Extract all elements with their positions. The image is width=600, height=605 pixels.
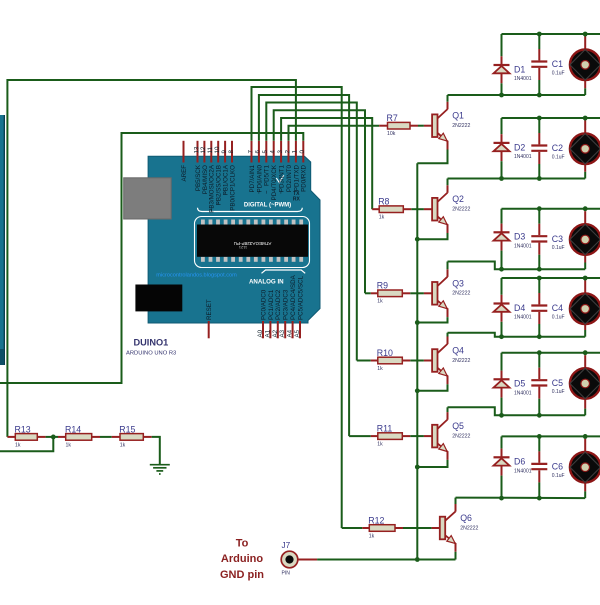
svg-text:PC2/ADC2: PC2/ADC2 <box>275 289 282 320</box>
svg-text:PB0/ICP1/CLKO: PB0/ICP1/CLKO <box>229 165 236 211</box>
wire Q6 collector to stage 6 <box>456 498 586 512</box>
junction nodes stage 4 <box>499 276 587 340</box>
svg-text:PD6/AIN0: PD6/AIN0 <box>256 164 263 192</box>
svg-text:AREF: AREF <box>181 165 188 182</box>
junction emitter node Q5 <box>415 465 420 470</box>
pin 11 <box>207 141 216 213</box>
svg-text:R9: R9 <box>377 281 388 291</box>
wire emitter rail <box>416 163 418 559</box>
svg-text:~: ~ <box>223 191 229 195</box>
motor M5 <box>570 368 600 399</box>
svg-text:Q6: Q6 <box>460 513 472 523</box>
svg-text:R8: R8 <box>378 197 389 207</box>
svg-text:Arduino: Arduino <box>221 553 263 565</box>
wire stage 4 top rail <box>502 277 600 279</box>
resistor R14 <box>65 424 92 448</box>
resistor R7 <box>387 113 411 137</box>
wire pin 5 to R10 <box>266 103 357 361</box>
wire capacitor C3 leads <box>538 209 540 270</box>
pin A4 <box>287 274 297 338</box>
wire Q2 collector to stage 2 <box>448 179 586 193</box>
svg-text:5: 5 <box>262 150 269 154</box>
svg-text:1N4001: 1N4001 <box>514 391 532 397</box>
svg-text:~: ~ <box>216 201 222 205</box>
svg-text:C3: C3 <box>552 234 563 244</box>
wire pin 3 to R8 <box>281 118 372 209</box>
pin 1 <box>292 141 301 191</box>
wire motor 5 leads <box>584 353 586 416</box>
wire Q2 emitter <box>415 224 448 241</box>
svg-text:0.1uF: 0.1uF <box>552 314 565 320</box>
board silkscreen texts <box>156 175 305 285</box>
svg-text:1k: 1k <box>377 442 383 448</box>
svg-text:1k: 1k <box>66 442 72 448</box>
junction nodes stage 2 <box>499 116 587 181</box>
motor M3 <box>570 224 600 255</box>
svg-text:1k: 1k <box>379 215 385 221</box>
pin 13 <box>193 141 202 191</box>
wire stage 6 top rail <box>502 435 600 437</box>
svg-text:C2: C2 <box>552 143 563 153</box>
wire pin 2 to R7 <box>289 126 380 141</box>
svg-text:1k: 1k <box>377 299 383 305</box>
wire capacitor C2 leads <box>538 118 540 179</box>
junction R13/R14 node <box>51 435 56 440</box>
wire motor 1 leads <box>584 34 586 95</box>
svg-text:DUINO1: DUINO1 <box>134 338 169 348</box>
svg-text:1121: 1121 <box>239 245 247 249</box>
svg-text:D4: D4 <box>514 303 525 313</box>
wire diode D2 leads <box>501 118 503 179</box>
board labels DUINO1 / ARDUINO UNO R3 <box>126 338 176 357</box>
pin 2 <box>284 141 293 192</box>
svg-text:To: To <box>236 538 249 550</box>
wire Q1 collector to stage 1 <box>448 95 586 109</box>
IC pins <box>201 220 303 262</box>
svg-text:7: 7 <box>247 150 254 154</box>
capacitor C5 0.1uF <box>531 378 564 395</box>
motor M4 <box>570 294 600 325</box>
wire capacitor C4 leads <box>538 278 540 337</box>
svg-text:2N2222: 2N2222 <box>452 434 470 440</box>
resistor R11 <box>377 424 403 448</box>
junction nodes stage 6 <box>499 434 587 501</box>
svg-text:8: 8 <box>228 150 235 154</box>
pin 7 <box>247 141 256 193</box>
svg-text:R7: R7 <box>387 113 398 123</box>
Arduino Uno board DUINO1 <box>148 156 320 323</box>
svg-text:C6: C6 <box>552 462 563 472</box>
wire J7 to Q6 emitter <box>298 559 456 561</box>
svg-text:Q4: Q4 <box>452 346 464 356</box>
wire R14-R15 <box>92 436 120 438</box>
diode D4 1N4001 <box>494 303 532 321</box>
pin A2 <box>272 289 282 338</box>
svg-text:R11: R11 <box>377 424 393 434</box>
wire motor 6 leads <box>584 436 586 498</box>
svg-text:Q2: Q2 <box>452 194 464 204</box>
wire diode D1 leads <box>501 34 503 95</box>
junction emitter node Q4 <box>415 388 420 393</box>
svg-text:1N4001: 1N4001 <box>514 244 532 250</box>
diode D3 1N4001 <box>494 232 532 250</box>
transistor Q4 2N2222 <box>432 344 470 376</box>
wire Q5 collector to stage 5 <box>448 407 586 419</box>
wire Q1 emitter <box>417 141 447 164</box>
capacitor C2 0.1uF <box>531 143 564 160</box>
svg-text:PD5/T1: PD5/T1 <box>264 164 271 186</box>
wire R13-R14 <box>37 436 65 438</box>
svg-text:A5: A5 <box>294 329 301 337</box>
IC socket outline <box>195 217 310 268</box>
wire capacitor C1 leads <box>538 34 540 95</box>
pin 10 <box>214 141 223 205</box>
svg-text:A0: A0 <box>257 329 264 337</box>
svg-text:0.1uF: 0.1uF <box>552 154 565 160</box>
svg-text:0.1uF: 0.1uF <box>552 473 565 479</box>
svg-text:4: 4 <box>270 150 277 154</box>
svg-text:RESET: RESET <box>206 299 213 320</box>
svg-text:Q5: Q5 <box>452 421 464 431</box>
junction rail/J7 node <box>415 557 420 562</box>
diode D2 1N4001 <box>494 142 532 160</box>
svg-text:R14: R14 <box>65 424 81 434</box>
svg-text:1k: 1k <box>369 533 375 539</box>
svg-text:PIN: PIN <box>282 571 291 577</box>
pin AREF <box>181 141 188 182</box>
junction emitter node Q3 <box>415 320 420 325</box>
motor M6 <box>570 452 600 483</box>
resistor R13 <box>15 424 38 448</box>
svg-text:1N4001: 1N4001 <box>514 469 532 475</box>
junction emitter node Q2 <box>415 237 420 242</box>
resistor R10 <box>377 348 403 372</box>
svg-text:~: ~ <box>209 208 215 212</box>
power jack <box>135 285 182 312</box>
wire R12 leads <box>342 527 440 529</box>
wire R13 left lead <box>7 436 15 438</box>
junction nodes stage 5 <box>499 350 587 417</box>
resistor R9 <box>377 281 403 305</box>
svg-text:2N2222: 2N2222 <box>452 207 470 213</box>
connector J7 PIN <box>281 541 298 577</box>
svg-text:10k: 10k <box>387 131 396 137</box>
svg-text:R15: R15 <box>119 424 135 434</box>
wire pin 4 to R9 <box>274 110 365 293</box>
pin 0 <box>299 141 308 192</box>
resistor R15 <box>119 424 143 448</box>
svg-text:Q1: Q1 <box>452 111 464 121</box>
svg-text:RX: RX <box>293 197 301 203</box>
svg-text:PD0/RXD: PD0/RXD <box>301 164 308 191</box>
svg-text:GND pin: GND pin <box>220 569 264 581</box>
wire R9 leads <box>365 292 432 294</box>
transistor Q5 2N2222 <box>432 420 470 452</box>
wire tap to left edge <box>0 437 53 451</box>
svg-text:~: ~ <box>264 190 270 194</box>
svg-text:PD2/INT0: PD2/INT0 <box>286 164 293 192</box>
pin 4 <box>270 141 279 201</box>
svg-text:2N2222: 2N2222 <box>460 525 478 531</box>
pin 9 <box>221 141 230 195</box>
wire pin 6 to R11 <box>259 95 349 436</box>
wire capacitor C5 leads <box>538 353 540 416</box>
wire stage 1 top rail <box>502 33 600 35</box>
wire R10 leads <box>357 360 432 362</box>
USB connector <box>124 178 172 219</box>
svg-text:D1: D1 <box>514 64 525 74</box>
wire stage 5 top rail <box>502 352 600 354</box>
IC ATMEGA328P <box>197 225 308 257</box>
svg-text:R13: R13 <box>15 424 31 434</box>
wire R11 leads <box>349 435 432 437</box>
svg-text:0.1uF: 0.1uF <box>552 70 565 76</box>
motor M1 <box>570 50 600 81</box>
PWM tilde marks <box>209 190 285 212</box>
svg-text:PD1/TXD: PD1/TXD <box>293 164 300 191</box>
capacitor C3 0.1uF <box>531 234 564 251</box>
svg-text:6: 6 <box>255 150 262 154</box>
svg-text:C1: C1 <box>552 59 563 69</box>
wire motor 3 leads <box>584 209 586 270</box>
svg-text:ARDUINO UNO R3: ARDUINO UNO R3 <box>126 350 176 356</box>
wire diode D3 leads <box>501 209 503 270</box>
svg-text:0: 0 <box>299 150 306 154</box>
svg-text:D6: D6 <box>514 457 525 467</box>
svg-text:Q3: Q3 <box>452 278 464 288</box>
svg-text:0.1uF: 0.1uF <box>552 245 565 251</box>
svg-text:1k: 1k <box>15 442 21 448</box>
svg-text:PC0/ADC0: PC0/ADC0 <box>260 289 267 320</box>
pin A3 <box>279 289 289 338</box>
svg-text:PD7/AIN1: PD7/AIN1 <box>249 164 256 192</box>
svg-text:DIGITAL (~PWM): DIGITAL (~PWM) <box>244 203 291 209</box>
pin RESET <box>206 299 213 338</box>
svg-text:1k: 1k <box>120 442 126 448</box>
svg-text:C4: C4 <box>552 303 563 313</box>
svg-text:D2: D2 <box>514 142 525 152</box>
svg-text:D5: D5 <box>514 379 525 389</box>
pin 6 <box>255 141 264 193</box>
wire TXD net <box>7 80 296 437</box>
svg-text:A3: A3 <box>279 329 286 337</box>
capacitor C6 0.1uF <box>531 462 564 479</box>
diode D5 1N4001 <box>494 379 532 397</box>
svg-text:R12: R12 <box>368 515 384 525</box>
svg-text:3: 3 <box>277 150 284 154</box>
wire Q4 emitter <box>415 376 448 394</box>
svg-text:PC5/ADC5/SCL: PC5/ADC5/SCL <box>297 275 304 320</box>
transistor Q3 2N2222 <box>432 277 470 309</box>
junction nodes stage 3 <box>499 206 587 271</box>
wire Q6 emitter <box>455 543 457 560</box>
svg-text:A1: A1 <box>264 329 271 337</box>
diode D6 1N4001 <box>494 457 532 475</box>
svg-text:2N2222: 2N2222 <box>452 291 470 297</box>
transistor Q1 2N2222 <box>432 109 470 141</box>
svg-text:R10: R10 <box>377 348 393 358</box>
wire motor 4 leads <box>584 278 586 337</box>
pin 8 <box>228 141 237 211</box>
svg-text:ANALOG IN: ANALOG IN <box>249 278 284 285</box>
capacitor C1 0.1uF <box>531 59 564 76</box>
svg-text:2: 2 <box>284 150 291 154</box>
svg-text:0.1uF: 0.1uF <box>552 389 565 395</box>
ground <box>150 465 170 474</box>
svg-text:PC3/ADC3: PC3/ADC3 <box>283 289 290 320</box>
TX RX labels <box>293 191 301 203</box>
capacitor C4 0.1uF <box>531 303 564 320</box>
svg-text:PD3/INT1: PD3/INT1 <box>279 164 286 192</box>
cropped module at left edge <box>0 115 5 365</box>
wire R8 leads <box>372 208 432 210</box>
svg-text:1: 1 <box>292 150 299 154</box>
motor M2 <box>570 134 600 165</box>
note text To Arduino GND pin <box>220 538 264 582</box>
svg-text:PC4/ADC4/SDA: PC4/ADC4/SDA <box>290 274 297 320</box>
svg-text:1N4001: 1N4001 <box>514 76 532 82</box>
wire R7 leads <box>379 125 432 127</box>
wire pin 7 to R12 <box>252 87 342 528</box>
wire capacitor C6 leads <box>538 436 540 498</box>
wire RXD net <box>0 133 303 383</box>
diode D1 1N4001 <box>494 64 532 82</box>
pin 3 <box>277 141 286 192</box>
svg-text:D3: D3 <box>514 232 525 242</box>
svg-text:J7: J7 <box>282 541 291 550</box>
wire motor 2 leads <box>584 118 586 179</box>
svg-text:PC1/ADC1: PC1/ADC1 <box>268 289 275 320</box>
wire Q4 collector to stage 4 <box>448 333 586 344</box>
svg-text:A4: A4 <box>287 329 294 337</box>
transistor Q6 2N2222 <box>440 511 479 543</box>
svg-text:microcontrolandos.blogspot.com: microcontrolandos.blogspot.com <box>156 273 237 279</box>
svg-text:1k: 1k <box>377 366 383 372</box>
wire Q3 emitter <box>415 308 448 325</box>
resistor R12 <box>368 515 395 539</box>
wire Q5 emitter <box>415 451 448 469</box>
wire stage 3 top rail <box>502 208 600 210</box>
pin 5 <box>262 141 271 186</box>
transistor Q2 2N2222 <box>432 193 470 225</box>
wire diode D6 leads <box>501 436 503 498</box>
svg-text:2N2222: 2N2222 <box>452 358 470 364</box>
wire Q3 collector to stage 3 <box>448 262 586 277</box>
pin A1 <box>264 289 274 338</box>
wire diode D4 leads <box>501 278 503 337</box>
svg-text:1N4001: 1N4001 <box>514 315 532 321</box>
junction nodes stage 1 <box>499 32 587 98</box>
pin 12 <box>200 141 209 194</box>
wire stage 2 top rail <box>502 117 600 119</box>
svg-text:PD4/T0/XCK: PD4/T0/XCK <box>271 164 278 200</box>
pin A0 <box>257 289 267 338</box>
wire diode D5 leads <box>501 353 503 416</box>
wire R15 to ground <box>143 437 160 464</box>
svg-text:C5: C5 <box>552 378 563 388</box>
svg-text:1N4001: 1N4001 <box>514 154 532 160</box>
svg-text:2N2222: 2N2222 <box>452 123 470 129</box>
resistor R8 <box>378 197 403 221</box>
pin A5 <box>294 275 304 338</box>
svg-text:A2: A2 <box>272 329 279 337</box>
